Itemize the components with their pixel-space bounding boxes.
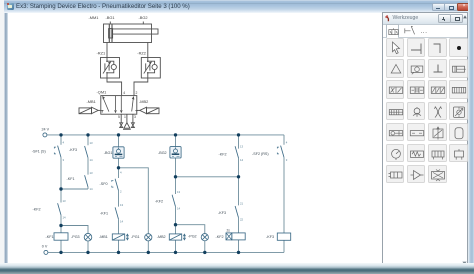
coil MB2 (solenoid) [169,234,185,240]
pneumatic labels [87,15,149,119]
electrical pin numbers [63,140,288,223]
svg-text:-MB2: -MB2 [139,99,148,104]
tool: junction dot [449,38,467,56]
svg-text:-BG1: -BG1 [106,15,115,20]
mid nodes [117,166,120,169]
cylinder MM1 body [104,24,152,43]
tab 2 icon (measure tool) [404,25,416,36]
tool: pressure source box [386,123,404,141]
bottom frame band [0,263,474,274]
C7: KF3 contact to timer coil [238,218,240,233]
24V top rail [47,134,284,136]
caption buttons: close (red) [457,3,472,11]
bottom rail dots [59,251,62,254]
timer coil KF2 with delay box [226,233,245,240]
palette button: close/dock [450,14,463,23]
tool: flow meter [449,102,467,120]
tab strip separator [383,36,467,39]
C7: KF2 contact to node [238,158,240,177]
flow control valve RZ1 [101,56,120,78]
tool: flow control [428,123,446,141]
valve QM1 body [101,96,137,115]
svg-text:0 V: 0 V [42,245,48,249]
sensor BG2 [170,147,181,158]
svg-text:2: 2 [136,91,138,95]
svg-text:-PG2: -PG2 [188,235,197,239]
svg-text:-BG1: -BG1 [104,151,113,155]
svg-text:-KF1: -KF1 [100,212,108,216]
svg-text:-RZ1: -RZ1 [97,50,106,55]
solenoid MB2 at valve [137,107,159,114]
contact KF3 (C7) [235,206,238,218]
svg-text:13: 13 [90,141,94,145]
junction dots [59,133,240,254]
wire RZ1 to valve port 4 [107,78,122,95]
tool: plain box [407,123,425,141]
coil MB1 (solenoid) [112,234,128,240]
svg-text:-MB1: -MB1 [87,99,96,104]
svg-text:13: 13 [90,171,94,175]
svg-text:14: 14 [63,216,67,220]
tool: exhaust [428,59,446,77]
contact KF1 (C2) [85,175,88,187]
tool: crossing lines [428,102,446,120]
C8: SF2 to KF3 coil (long wire) [283,157,285,233]
tool: pointer [386,38,404,56]
svg-text:22: 22 [240,218,244,222]
svg-text:-PG3: -PG3 [71,235,80,239]
link C5-C7 at y176.8 [176,176,239,178]
C3: BG1 to node [118,158,120,168]
svg-text:14: 14 [240,158,244,162]
sensor BG1 [113,147,124,158]
valve blocked port T left [101,110,104,112]
svg-text:1: 1 [124,115,126,119]
tool: valve 1 [386,80,404,98]
lamp PG2 [201,234,208,241]
coil KF3 [277,233,290,240]
tool: tank [449,123,467,141]
exhaust symbol port 3 [131,123,134,128]
svg-text:-KF3: -KF3 [218,211,226,215]
C3: node to SF0 [118,168,120,178]
tool: heat exchanger [428,165,446,183]
valve bottom port stubs 5 1 3 [121,114,133,122]
svg-text:3: 3 [286,158,288,162]
svg-text:4: 4 [123,91,125,95]
svg-text:-KF1: -KF1 [46,235,54,239]
lamp PG1 [145,234,152,241]
tool: wire corner [428,38,446,56]
tool: valve 4 [449,80,467,98]
exhaust symbol port 5 [120,123,123,128]
C2: between KF3 and KF1 contacts [87,158,89,175]
main window left border [4,13,8,263]
C2: KF1 contact to link corner [87,187,89,189]
left gutter background [0,0,5,274]
C7: timer coil to bottom rail [238,240,240,253]
svg-text:-KF2: -KF2 [216,235,224,239]
valve blocked port T right [135,110,138,112]
contact SF0 (C3) [115,179,118,191]
svg-text:3: 3 [134,115,136,119]
pneumatic part [79,22,160,130]
svg-text:4: 4 [63,140,65,144]
electrical wires [47,135,284,253]
valve QM1 right chamber diagonal arrow [132,99,134,111]
C7: node to KF3 contact [238,177,240,206]
svg-text:21: 21 [240,202,244,206]
svg-text:14: 14 [177,207,181,211]
tool: component legs [428,144,446,162]
svg-text:14: 14 [120,219,124,223]
top rail dots [59,133,62,136]
svg-text:-KF1: -KF1 [67,177,75,181]
C3: MB1 coil to bottom rail [118,240,120,252]
C5: BG2 to node [175,158,177,177]
tool: ported box [386,165,404,183]
svg-text:-KF2: -KF2 [155,199,163,203]
valve QM1 left chamber diagonal arrow [103,99,109,112]
valve QM1 middle indicator arrows [116,96,122,110]
C5: node2 to MB2 coil [175,225,177,234]
main window title icon [7,3,14,10]
svg-text:-RZ2: -RZ2 [137,50,146,55]
svg-text:-MB1: -MB1 [99,235,108,239]
palette scroll down arrow [462,261,467,265]
caption buttons: minimize [432,3,446,11]
cylinder piston [109,24,112,42]
contact KF2 (C1) [58,203,61,215]
sensor tick BG1 [109,22,111,25]
svg-text:-KF3: -KF3 [69,148,77,152]
tool: muffler [407,144,425,162]
link C1-C2 at y189 [61,188,88,190]
C3 rung: rail to BG1 [118,135,120,147]
C3: KF1 to MB1 coil [118,219,120,234]
svg-text:14: 14 [90,158,94,162]
svg-text:-KF3: -KF3 [266,235,274,239]
svg-text:13: 13 [177,190,181,194]
contact KF2 (C5) [172,195,175,207]
tool: gauge [386,144,404,162]
svg-text:-QM1: -QM1 [97,90,107,95]
0V bottom rail [48,251,284,253]
C5: KF2 contact to node2 [175,207,177,225]
terminal 24V [43,133,47,137]
svg-text:4: 4 [286,140,288,144]
svg-text:2: 2 [120,189,122,193]
C4: PG1 to bottom rail [147,241,149,253]
svg-text:-MB2: -MB2 [157,235,166,239]
tool: small box legs [449,144,467,162]
coil KF1 [54,233,68,240]
svg-text:-SF1 (S): -SF1 (S) [32,150,46,154]
palette title text [393,15,419,21]
C7 rung: rail to KF2 contact [238,135,240,149]
tool: valve 3 [428,80,446,98]
C3: SF0 to KF1 [118,191,120,207]
svg-text:-KF2: -KF2 [33,207,41,211]
svg-text:13: 13 [63,199,67,203]
C5: node to KF2 contact [175,177,177,194]
C8: KF3 coil to bottom rail corner [283,240,285,252]
C1: SF1 to node [60,157,62,202]
svg-text:13: 13 [240,144,244,148]
svg-text:-BG2: -BG2 [139,15,148,20]
caption buttons: restore [444,3,458,11]
tool: compressor [407,59,425,77]
link C1-C2 at y225.5 (lamp PG3 feed) [61,226,88,234]
supply triangle under port 1 [124,123,130,129]
tool: valve small [386,102,404,120]
wire cylinder left port to RZ1 [106,43,108,57]
electrical components [43,133,291,255]
right rung down from rail corner [283,135,285,145]
svg-text:14: 14 [90,187,94,191]
tool: supply triangle [386,59,404,77]
flow control valve RZ2 [141,56,160,78]
contact SF2 (RS) [281,146,284,158]
tool: amplifier [407,165,425,183]
palette icon (hammer) [385,15,391,22]
solenoid MB1 at valve [79,107,101,114]
lamp PG3 [84,233,92,241]
branch BG1-node to C4 and down to PG1 [119,168,149,234]
wire RZ2 to valve port 2 [134,78,148,95]
contact KF1 (C3) [115,207,118,219]
tab 1 (active) [386,24,399,38]
svg-text:-MM1: -MM1 [89,15,99,20]
C1 rung: rail to SF1 [60,135,62,145]
main window right border strip [468,0,474,266]
tool: check valve [407,102,425,120]
electrical labels [32,128,274,249]
C2 rung: rail to KF3 [87,135,89,145]
palette scroll up arrow [463,15,467,19]
C5: MB2 coil to bottom rail [175,240,177,252]
palette title bar [383,13,467,25]
wire cylinder right port to RZ2 [147,43,149,57]
svg-text:13: 13 [120,203,124,207]
main window title bar [4,0,474,13]
svg-text:5: 5 [118,115,120,119]
svg-text:-BG2: -BG2 [158,151,167,155]
svg-text:-SF2 (RS): -SF2 (RS) [252,152,269,156]
contact KF3 (C2) [85,146,88,158]
svg-text:2s: 2s [227,229,231,233]
svg-text:-KF2: -KF2 [219,152,227,156]
svg-text:4: 4 [120,171,122,175]
tool: cylinder [449,59,467,77]
svg-text:-PG1: -PG1 [131,235,140,239]
svg-text:-SF0: -SF0 [100,182,108,186]
palette button: pin [438,14,451,23]
C2: PG3 lamp to bottom rail [87,241,89,252]
svg-text:3: 3 [63,158,65,162]
C1: KF2 contact to node [60,215,62,233]
contact SF1 (S) NO pushbutton [58,146,61,158]
main window title text [16,3,316,12]
branch C5 node2 to C6 PG2 lamp [176,225,205,234]
terminal 0V [44,250,48,254]
tool: valve 2 [407,80,425,98]
C6: PG2 to bottom rail [204,241,206,253]
cylinder piston rod [112,29,158,34]
tool: wire T [407,38,425,56]
tab dots ... [421,29,428,35]
svg-text:24 V: 24 V [42,128,50,132]
contact KF2 (C7) [235,146,238,158]
C5 rung: rail to BG2 [175,135,177,147]
sensor tick BG2 [142,22,144,25]
C1: KF1 coil to bottom rail [60,240,62,252]
